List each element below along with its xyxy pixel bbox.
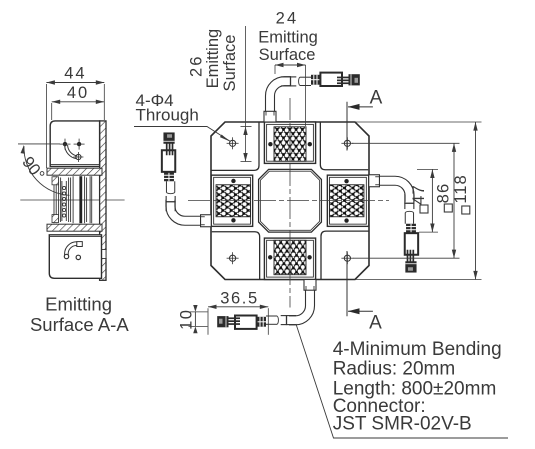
plate cable pass-through gap (99, 250, 107, 259)
svg-text:JST SMR-02V-B: JST SMR-02V-B (333, 414, 472, 435)
clamp bar top (hatched) (47, 168, 102, 175)
leader to note text (296, 324, 508, 438)
clamp bar bottom (hatched) (47, 224, 102, 231)
body outline octagon (211, 122, 369, 280)
dim 26 (rotated labels) (245, 26, 247, 162)
svg-text:A: A (370, 88, 383, 109)
emitting module E (327, 175, 368, 226)
section arrow top (348, 106, 373, 108)
side centerline (20, 199, 124, 201)
bottom housing box (49, 235, 101, 278)
svg-text:Surface: Surface (259, 46, 316, 64)
cable elbow W (166, 200, 211, 227)
dim 44 (46, 82, 104, 84)
svg-text:36.5: 36.5 (220, 290, 259, 308)
cable elbow S (289, 280, 316, 325)
wing edge bottom-right (321, 231, 369, 279)
svg-text:86: 86 (434, 183, 452, 204)
connector E (404, 194, 418, 273)
svg-text:Through: Through (136, 106, 199, 125)
cable elbow E (369, 175, 414, 202)
wing edge top-right (320, 122, 368, 170)
90 degree dimension (18, 143, 60, 145)
screws in top box (60, 139, 85, 162)
svg-text:Surface: Surface (221, 35, 239, 92)
mounting hole top-left (227, 137, 239, 149)
connector W (162, 132, 176, 211)
lens / LED stack (54, 176, 92, 223)
dim square118 (355, 121, 482, 123)
svg-text:24: 24 (276, 10, 299, 28)
plate bar (hatched) (100, 121, 106, 280)
dim square86 (352, 142, 460, 144)
svg-text:Emitting: Emitting (204, 29, 222, 89)
wing edge top-left (211, 123, 259, 171)
connector N (281, 73, 360, 87)
emitting module S (264, 238, 315, 279)
svg-text:44: 44 (64, 65, 86, 83)
svg-text:Radius: 20mm: Radius: 20mm (333, 358, 456, 379)
section line A-A (346, 102, 348, 316)
note text block (333, 339, 502, 435)
svg-text:118: 118 (452, 174, 470, 203)
emitting module W (211, 175, 252, 226)
adjustment arc slot (65, 145, 77, 159)
dim 40 (52, 101, 105, 103)
mounting hole bottom-right (341, 252, 353, 264)
svg-text:Surface A-A: Surface A-A (30, 314, 129, 335)
top housing box (50, 121, 99, 166)
dim 10 (194, 312, 196, 327)
connector S (217, 315, 296, 329)
mounting hole top-right (341, 137, 353, 149)
svg-text:A: A (369, 313, 382, 334)
dim square47 (417, 168, 438, 170)
emitting module N (264, 122, 315, 163)
wing edge bottom-left (212, 232, 260, 280)
svg-text:Emitting: Emitting (45, 294, 112, 315)
svg-text:47: 47 (410, 184, 428, 205)
section arrow bottom (348, 310, 373, 312)
svg-text:40: 40 (67, 84, 89, 102)
LED circles (63, 186, 66, 217)
horizontal centerline (188, 199, 389, 201)
dim 24 (275, 64, 306, 66)
central octagon plateau (double outline) (259, 169, 322, 232)
mounting hole bottom-left (227, 252, 239, 264)
dim 36.5 (208, 306, 268, 308)
cable elbow N (264, 77, 291, 122)
svg-text:4-Minimum Bending: 4-Minimum Bending (333, 339, 502, 360)
svg-text:26: 26 (188, 55, 206, 77)
svg-text:10: 10 (177, 309, 195, 330)
svg-text:Emitting: Emitting (258, 29, 318, 47)
vertical centerline (289, 98, 291, 308)
cable symbol in bottom box (65, 242, 77, 255)
